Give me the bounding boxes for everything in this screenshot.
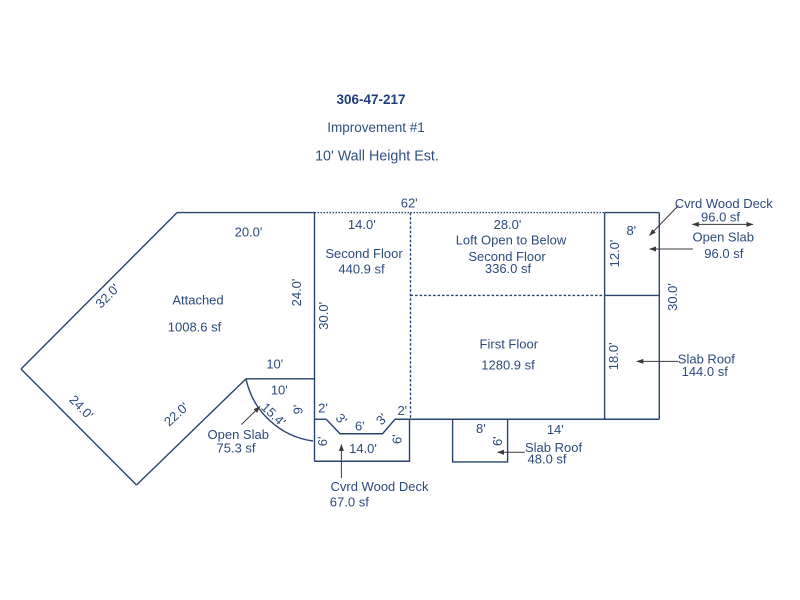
svg-text:32.0': 32.0' [92,281,122,311]
svg-text:20.0': 20.0' [235,224,263,239]
svg-text:Loft Open to Below: Loft Open to Below [456,232,567,247]
wall: top edge cvrd wood deck (solid) [605,212,660,214]
wall: horizontal divider y=295 right column [605,294,660,296]
wall: slab roof 48sf box [453,419,508,462]
svg-text:144.0 sf: 144.0 sf [682,364,729,379]
arrow cvrd wood deck bottom [340,445,342,479]
svg-text:22.0': 22.0' [161,399,192,429]
svg-text:28.0': 28.0' [494,217,522,232]
svg-text:Improvement #1: Improvement #1 [327,120,425,135]
wall: attached 24.0' diagonal [21,369,137,485]
svg-text:14': 14' [547,422,564,437]
svg-text:8': 8' [626,223,636,238]
wall: attached 22.0' diagonal [137,379,247,485]
svg-text:6': 6' [315,437,330,447]
svg-text:12.0': 12.0' [607,240,622,268]
svg-text:10': 10' [266,357,283,372]
svg-text:Attached: Attached [172,293,223,308]
svg-text:24.0': 24.0' [289,279,304,307]
svg-text:15.4': 15.4' [258,399,288,429]
svg-text:2': 2' [318,400,328,415]
arrow slab roof bottom [498,451,525,453]
svg-text:14.0': 14.0' [349,441,377,456]
svg-text:6': 6' [355,419,365,434]
svg-text:336.0 sf: 336.0 sf [485,261,532,276]
svg-text:1008.6 sf: 1008.6 sf [168,320,222,335]
svg-text:3': 3' [373,410,391,427]
wall: second floor west wall + deck left edge [314,213,316,462]
svg-text:6': 6' [389,434,404,444]
svg-text:24.0': 24.0' [66,392,96,422]
svg-text:48.0 sf: 48.0 sf [528,452,567,467]
wall: deck bottom and right edge [315,419,410,461]
wall: dotted top edge second floor / loft [315,212,605,214]
svg-text:8': 8' [476,421,486,436]
svg-text:Second Floor: Second Floor [325,246,403,261]
svg-text:3': 3' [333,410,351,427]
wall: attached top edge [177,212,315,214]
svg-text:30.0': 30.0' [665,283,680,311]
svg-text:2': 2' [397,403,407,418]
svg-text:10' Wall Height Est.: 10' Wall Height Est. [315,149,439,165]
svg-text:18.0': 18.0' [606,342,621,370]
svg-text:440.9 sf: 440.9 sf [338,262,385,277]
svg-text:67.0 sf: 67.0 sf [330,494,369,509]
svg-text:62': 62' [401,195,418,210]
wall: dashed vertical second floor east [410,213,412,420]
arrow cvrd wood deck diagonal [650,206,679,236]
wall: bottom edge first floor + right columns [395,418,659,420]
wall: deck top-left 2' segment [315,418,327,420]
svg-text:10': 10' [271,383,288,398]
svg-text:First Floor: First Floor [480,337,539,352]
svg-text:30.0': 30.0' [316,302,331,330]
svg-text:306-47-217: 306-47-217 [336,92,405,107]
arrow double headed under 96.0 sf [692,223,753,225]
svg-text:75.3 sf: 75.3 sf [217,440,256,455]
svg-text:Cvrd Wood Deck: Cvrd Wood Deck [331,479,430,494]
wall: deck notch [326,419,395,434]
arrow open slab pointer [650,248,694,250]
svg-text:14.0': 14.0' [348,217,376,232]
svg-text:6': 6' [490,436,505,446]
wall: dashed horizontal loft boundary [411,294,605,296]
svg-text:9': 9' [291,405,306,415]
arc: open slab quarter circle [246,379,313,441]
wall: attached 32.0' diagonal [21,213,177,369]
wall: vertical x=604.6 first floor east [604,213,606,420]
svg-text:1280.9 sf: 1280.9 sf [481,357,535,372]
arrow slab roof right [637,360,678,362]
wall: vertical x=659.3 right outer edge [658,213,660,420]
svg-text:96.0 sf: 96.0 sf [701,209,740,224]
svg-text:96.0 sf: 96.0 sf [704,246,743,261]
wall: 10' horizontal [246,378,315,380]
arrow open slab 75.3 pointer [242,407,261,425]
svg-text:Open Slab: Open Slab [693,230,754,245]
